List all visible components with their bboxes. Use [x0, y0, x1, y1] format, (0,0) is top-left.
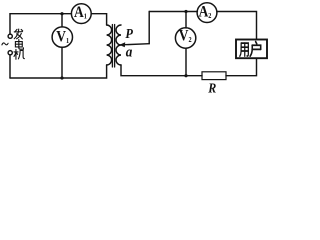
text 机 (generator label char 3) — [14, 49, 24, 59]
wire generator bottom lead — [9, 55, 11, 78]
resistor R body — [202, 72, 226, 80]
generator terminal top — [8, 34, 12, 38]
svg-text:P: P — [125, 25, 133, 41]
transformer core line 2 — [114, 25, 116, 68]
wire V2 lower branch — [185, 48, 187, 75]
wire top-left horizontal (generator to V1 junction to A1) — [10, 13, 71, 15]
ammeter A1 circle — [71, 4, 91, 24]
wire arrow corner up to top — [148, 12, 150, 44]
text 电 (generator label char 2) — [15, 40, 23, 50]
wire V1 upper branch — [61, 14, 63, 27]
wire V2 upper branch — [185, 12, 187, 29]
voltmeter V1 circle — [52, 27, 72, 47]
wire V1 lower branch — [61, 47, 63, 78]
transformer T secondary winding — [116, 25, 121, 65]
text 发 (generator label char 1) — [14, 29, 22, 39]
load box 用户 — [236, 40, 267, 59]
slider P arrowhead — [119, 42, 125, 47]
wire generator top lead — [9, 14, 11, 34]
text 用 (load label char 1) — [240, 43, 249, 56]
node V2 top junction — [184, 10, 187, 13]
wire right-circuit top — [149, 11, 197, 13]
svg-text:a: a — [126, 44, 133, 61]
wire load bottom lead — [226, 58, 257, 75]
node V2 bottom junction — [184, 74, 187, 77]
wire secondary bottom lead — [121, 65, 202, 76]
voltmeter V2 circle — [175, 28, 195, 48]
transformer core line 1 — [111, 25, 113, 68]
slider P arrow wire — [124, 44, 149, 45]
node V1 top junction — [60, 12, 63, 15]
wire A1 right to transformer primary top — [91, 14, 106, 25]
AC tilde symbol — [2, 43, 8, 45]
wire bottom-left horizontal — [10, 65, 107, 78]
generator terminal bottom — [8, 51, 12, 55]
transformer T primary winding — [107, 25, 112, 65]
text 户 (load label char 2) — [250, 42, 261, 57]
node V1 bottom junction — [60, 76, 63, 79]
ammeter A2 circle — [197, 3, 217, 23]
wire A2 right to load corner — [217, 12, 257, 40]
svg-text:R: R — [207, 80, 216, 96]
